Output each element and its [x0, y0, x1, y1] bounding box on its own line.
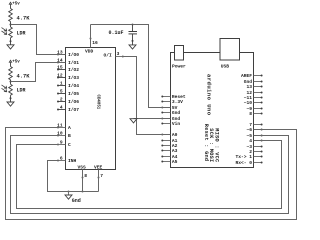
svg-text:13: 13: [246, 84, 252, 90]
svg-text:USB: USB: [221, 63, 230, 69]
Arduino right pin Tx-> 1: [235, 154, 262, 160]
U1 pin 6 INH: [57, 156, 77, 165]
svg-text:15: 15: [57, 65, 63, 71]
svg-text:arduino Uno: arduino Uno: [206, 74, 213, 116]
U1 pin 5 I/O5: [57, 89, 79, 98]
Arduino right pin ~10: [244, 100, 263, 106]
svg-text:8: 8: [249, 111, 252, 117]
photoresistor LDR1: [2, 27, 26, 38]
svg-text:4.7K: 4.7K: [17, 15, 31, 21]
svg-text:VSS: VSS: [78, 164, 87, 170]
svg-text:~10: ~10: [244, 100, 253, 106]
svg-text:VDD: VDD: [85, 49, 94, 55]
svg-text:Gnd: Gnd: [172, 110, 181, 116]
ground Gnd symbol under U1: [65, 192, 81, 205]
svg-text:11: 11: [57, 123, 63, 129]
svg-text:I/O0: I/O0: [68, 52, 79, 58]
Arduino left pin A1: [161, 138, 177, 144]
Arduino left pin Gnd: [161, 110, 180, 116]
Arduino right pin ~5: [246, 133, 262, 139]
Arduino right pin 12: [246, 90, 262, 96]
svg-text:A0: A0: [172, 132, 178, 138]
Arduino right pin ~11: [244, 95, 263, 101]
wire U1 VDD to Arduino 5V: [91, 25, 171, 108]
svg-text:SCK : MOSI: SCK : MOSI: [208, 128, 214, 162]
svg-text:5: 5: [60, 89, 63, 95]
U1 pin 9 C: [57, 140, 71, 149]
svg-text:I/O7: I/O7: [68, 107, 79, 113]
svg-text:C: C: [68, 142, 71, 148]
svg-text:2: 2: [60, 97, 63, 103]
Arduino right pin ~6: [246, 127, 262, 133]
svg-text:Gnd: Gnd: [72, 198, 81, 204]
U1 pin 3 O/I stub: [116, 51, 124, 58]
U1 pin 16 VDD stub: [90, 25, 99, 48]
svg-text:0.1uF: 0.1uF: [109, 30, 124, 36]
Arduino left pin A3: [161, 148, 177, 154]
svg-text:+5v: +5v: [12, 61, 20, 65]
photoresistor LDR2: [2, 84, 26, 95]
Arduino left pin Vin: [161, 121, 180, 127]
svg-text:4: 4: [60, 105, 63, 111]
svg-text:A5: A5: [172, 159, 178, 165]
U1 pin 10 B: [57, 131, 71, 140]
svg-text:Vin: Vin: [172, 121, 181, 127]
U1 pin 8 VSS stub: [82, 170, 88, 192]
ground below LDR2: [7, 95, 14, 106]
power +5V supply 1: [9, 2, 20, 8]
wire U1 O/I pin3 to Arduino A0: [124, 57, 171, 135]
Arduino left pin A5: [161, 159, 177, 165]
svg-text:A: A: [68, 125, 71, 131]
multiplexer U1 CD4051 body: [66, 48, 116, 170]
svg-text:I/O1: I/O1: [68, 60, 79, 66]
node cap junction: [132, 24, 134, 26]
Arduino right pin 2: [249, 149, 262, 155]
USB connector: [220, 39, 240, 70]
wire U1 INH to ground rail: [48, 161, 99, 192]
Arduino right pin AREF: [241, 73, 263, 79]
svg-text:VEE: VEE: [94, 164, 103, 170]
svg-text:7: 7: [100, 173, 103, 179]
ground at Arduino Gnd: [130, 119, 137, 123]
Arduino left pin 5V: [161, 105, 177, 111]
Arduino right pin 7: [249, 122, 262, 128]
svg-text:4.7K: 4.7K: [17, 73, 31, 79]
U1 pin 11 A: [57, 123, 71, 132]
svg-text:A3: A3: [172, 148, 178, 154]
svg-text:16: 16: [92, 40, 98, 46]
wire B: U1 pin10 around to Arduino ~5: [11, 136, 289, 214]
Arduino left pin A4: [161, 154, 177, 160]
svg-text:13: 13: [57, 50, 63, 56]
U1 pin 1 I/O4: [57, 81, 79, 90]
node divider2 junction: [10, 81, 12, 83]
Arduino right pin Gnd: [244, 79, 263, 85]
svg-text:B: B: [68, 133, 71, 139]
svg-text:+5v: +5v: [12, 3, 20, 7]
svg-text:Rx<- 0: Rx<- 0: [235, 160, 252, 166]
Arduino right pin 13: [246, 84, 262, 90]
Arduino right pin Rx<- 0: [235, 160, 262, 166]
svg-text:MISO : VCC: MISO : VCC: [213, 128, 219, 162]
power +5V supply 2: [9, 60, 20, 66]
svg-text:3.3V: 3.3V: [172, 99, 183, 105]
svg-text:I/O6: I/O6: [68, 99, 79, 105]
wire R1 to LDR1: [10, 22, 12, 28]
svg-text:I/O3: I/O3: [68, 75, 79, 81]
Arduino right pin ~9: [246, 106, 262, 112]
svg-text:6: 6: [60, 156, 63, 162]
svg-text:14: 14: [57, 58, 63, 64]
svg-text:Reset : Gnd: Reset : Gnd: [203, 124, 209, 162]
svg-text:~6: ~6: [246, 127, 252, 133]
resistor R1 4.7K: [9, 9, 31, 22]
node pin8 ground rail junction: [82, 191, 84, 193]
svg-text:10: 10: [57, 131, 63, 137]
Arduino right pin ~3: [246, 144, 262, 150]
Arduino right pin 4: [249, 138, 262, 144]
ground below C1: [129, 45, 136, 49]
U1 pin 12 I/O3: [57, 73, 79, 82]
Arduino left pin Reset: [161, 94, 186, 100]
svg-text:LDR: LDR: [17, 30, 26, 36]
resistor R2 4.7K: [9, 67, 31, 80]
node gnd symbol junction: [68, 191, 70, 193]
wire LDR2 node to U1 pin 14: [11, 63, 66, 82]
wire LDR1 node to U1 pin 13: [11, 25, 66, 55]
Arduino Uno board body: [171, 53, 254, 168]
ground below LDR1: [7, 38, 14, 49]
wire A: U1 pin11 around to Arduino ~6: [6, 128, 297, 220]
U1 pin 13 I/O0: [57, 50, 79, 59]
U1 pin 15 I/O2: [57, 65, 79, 74]
U1 pin 14 I/O1: [57, 58, 79, 66]
svg-text:O/I: O/I: [104, 52, 113, 58]
svg-text:INH: INH: [68, 158, 77, 164]
Arduino left pin 3.3V: [161, 99, 183, 105]
U1 pin 2 I/O6: [57, 97, 79, 106]
svg-text:4: 4: [249, 138, 252, 144]
wire R2 to LDR2: [10, 80, 12, 85]
Arduino right pin 8: [249, 111, 262, 117]
svg-text:Tx-> 1: Tx-> 1: [235, 154, 252, 160]
node divider1 junction: [10, 24, 12, 26]
Arduino left pin Gnd: [161, 116, 180, 122]
Arduino left pin A0: [161, 132, 177, 138]
Power connector: [172, 46, 186, 70]
Arduino left pin A2: [161, 143, 177, 149]
svg-text:AREF: AREF: [241, 73, 252, 79]
svg-text:1: 1: [60, 81, 63, 87]
capacitor C1 0.1uF: [109, 25, 138, 45]
svg-text:LDR: LDR: [17, 88, 26, 94]
U1 pin 7 VEE stub: [98, 170, 104, 192]
svg-text:I/O5: I/O5: [68, 91, 79, 97]
svg-text:CD4051: CD4051: [95, 95, 99, 110]
svg-text:3: 3: [117, 51, 120, 57]
svg-text:9: 9: [60, 140, 63, 146]
wire Arduino Gnd pin to ground: [134, 118, 171, 120]
wire C: U1 pin9 around to Arduino 4: [17, 141, 282, 209]
svg-text:Power: Power: [172, 63, 186, 69]
U1 pin 4 I/O7: [57, 105, 79, 114]
svg-text:12: 12: [57, 73, 63, 79]
svg-text:I/O4: I/O4: [68, 83, 79, 89]
svg-text:I/O2: I/O2: [68, 67, 79, 73]
svg-text:8: 8: [84, 173, 87, 179]
